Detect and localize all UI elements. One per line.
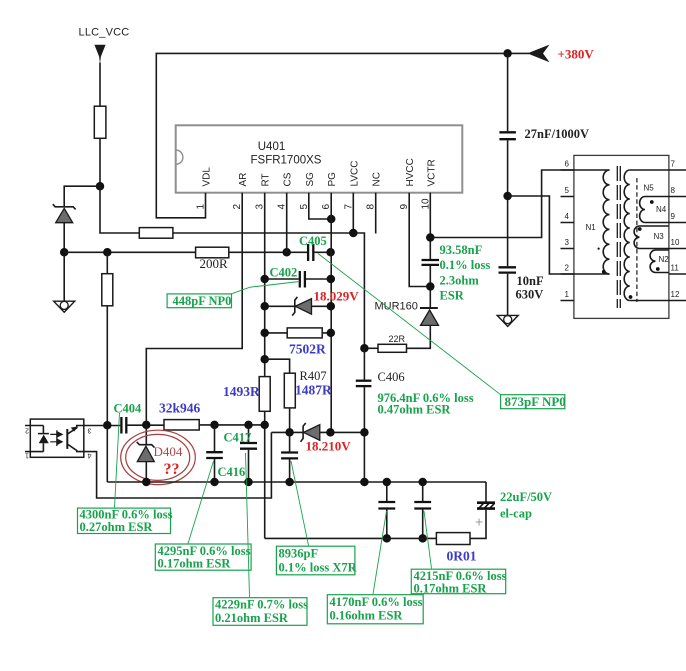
resistor 7502R row bbox=[260, 328, 335, 357]
wire pin 6 PG column bbox=[330, 193, 332, 433]
wire C406 column upper bbox=[363, 348, 365, 379]
wire 22R to C406 node bbox=[364, 347, 378, 349]
svg-text:VCTR: VCTR bbox=[426, 159, 437, 186]
capacitor C402 row bbox=[260, 266, 335, 288]
svg-text:200R: 200R bbox=[200, 256, 229, 271]
svg-text:10: 10 bbox=[671, 238, 680, 247]
capacitor C405 bbox=[299, 234, 327, 261]
wire VCTR node to transformer pin 6 bbox=[430, 170, 574, 238]
wire +380V down to 27nF bbox=[507, 53, 509, 131]
svg-text:4170nF 0.6% loss: 4170nF 0.6% loss bbox=[330, 595, 423, 609]
node junction LVCC bbox=[349, 229, 358, 238]
leader C417 to 4229nF box bbox=[246, 453, 250, 597]
node junction C417 top bbox=[244, 421, 253, 430]
winding N2 bbox=[650, 250, 669, 273]
svg-text:C404: C404 bbox=[114, 402, 143, 416]
wire 200R row left bbox=[64, 251, 195, 253]
ground (left) bbox=[54, 301, 75, 312]
transformer left pin stubs bbox=[561, 160, 575, 301]
resistor 200R bbox=[196, 247, 229, 271]
wire pin1 VDL loop to +380V rail bbox=[156, 53, 529, 217]
zener diode (LLC_VCC clamp) bbox=[53, 204, 76, 223]
svg-text:93.58nF: 93.58nF bbox=[440, 243, 483, 257]
winding separator dashed bbox=[636, 178, 638, 302]
svg-text:VDL: VDL bbox=[202, 167, 213, 187]
pin 5 SG label bbox=[299, 172, 316, 210]
svg-text:4229nF 0.7% loss: 4229nF 0.7% loss bbox=[215, 598, 308, 612]
diode D404 bbox=[137, 425, 155, 482]
wire ground bus bbox=[107, 481, 486, 483]
wire el-cap to ground bus bbox=[485, 482, 487, 502]
wire sense rail (rail3) bbox=[265, 537, 437, 539]
node junction divider top bbox=[103, 248, 112, 256]
svg-text:9: 9 bbox=[671, 212, 676, 221]
resistor 32k946 bbox=[159, 401, 201, 431]
capacitor (4215nF position) bbox=[414, 478, 431, 543]
annotation box 4300nF bbox=[78, 508, 173, 535]
node junction D404 bottom bbox=[142, 478, 151, 487]
svg-text:D404: D404 bbox=[154, 444, 183, 459]
annotation box 4229nF bbox=[213, 598, 308, 626]
node junction cap-4295 top bbox=[210, 421, 219, 430]
node junction LLC_VCC rail bbox=[96, 182, 105, 191]
svg-text:0.17ohm ESR: 0.17ohm ESR bbox=[414, 582, 488, 596]
pin 7 LVCC label bbox=[343, 161, 360, 210]
zener diode 18.210V row bbox=[271, 423, 368, 454]
node junction opto-C404 bbox=[103, 421, 112, 430]
svg-text:C417: C417 bbox=[224, 431, 252, 445]
svg-text:RT: RT bbox=[261, 173, 272, 186]
annotation box 4170nF bbox=[327, 595, 423, 624]
wire pin 10 VCTR column bbox=[429, 193, 431, 259]
wire zener to ground/junction bbox=[63, 223, 65, 302]
pin 1 VDL label bbox=[196, 167, 213, 210]
IC U401 FSFR1700XS body bbox=[176, 125, 463, 192]
opto-coupler bbox=[25, 419, 92, 458]
leader C404 to 4300nF box bbox=[115, 413, 120, 508]
wire 10nF to ground bbox=[507, 274, 509, 316]
svg-text:7: 7 bbox=[671, 160, 676, 169]
node junction VCTR to transformer bbox=[426, 233, 435, 242]
wire MUR160 to 22R bbox=[407, 325, 431, 348]
svg-text:6: 6 bbox=[565, 160, 570, 169]
wire 27nF to 10nF bbox=[507, 140, 509, 266]
capacitor 10nF/630V bbox=[499, 267, 544, 301]
node junction SG-PG bbox=[327, 215, 336, 224]
diode MUR160 bbox=[375, 301, 439, 326]
capacitor 22uF/50V el-cap bbox=[475, 490, 552, 530]
wire pin 9 HVCC to VCTR node bbox=[409, 193, 430, 287]
svg-text:1: 1 bbox=[25, 452, 29, 459]
svg-text:0.17ohm ESR: 0.17ohm ESR bbox=[158, 557, 232, 571]
wire pin 2 AR loop to D404 node bbox=[146, 193, 242, 425]
capacitor C417 bbox=[224, 425, 258, 482]
svg-text:AR: AR bbox=[238, 173, 249, 187]
svg-text:32k946: 32k946 bbox=[159, 401, 201, 416]
pin 9 HVCC label bbox=[399, 158, 416, 209]
svg-text:N5: N5 bbox=[644, 184, 655, 193]
pin 10 VCTR label bbox=[420, 159, 437, 209]
svg-text:27nF/1000V: 27nF/1000V bbox=[525, 127, 590, 141]
leader cap to 4170nF box bbox=[373, 511, 387, 594]
leader cap to 4215nF box bbox=[424, 511, 432, 569]
capacitor C406 bbox=[356, 370, 474, 417]
svg-text:873pF NP0: 873pF NP0 bbox=[505, 394, 566, 409]
wire LLC rail down to LVCC feed row bbox=[100, 186, 139, 233]
capacitor C416 bbox=[218, 432, 299, 482]
node junction HVCC-VCTR bbox=[426, 282, 435, 291]
svg-text:3: 3 bbox=[565, 238, 570, 247]
capacitor 93.58nF (HVCC) bbox=[422, 243, 491, 303]
transformer right pin stubs bbox=[669, 160, 686, 301]
resistor R407 1487R bbox=[284, 369, 332, 408]
wire pin 5 SG jumper to PG bbox=[309, 193, 331, 219]
svg-text:3: 3 bbox=[87, 427, 91, 434]
wire R407 to zener row bbox=[289, 408, 291, 433]
svg-text:22R: 22R bbox=[389, 334, 406, 344]
svg-text:LVCC: LVCC bbox=[349, 161, 360, 187]
transformer T1 body bbox=[574, 155, 669, 318]
svg-text:1493R: 1493R bbox=[223, 384, 260, 399]
svg-text:11: 11 bbox=[671, 264, 680, 273]
svg-text:2.3ohm: 2.3ohm bbox=[440, 274, 480, 288]
node junction C405-PG bbox=[326, 248, 335, 256]
node junction 22R-C406 bbox=[360, 344, 369, 353]
wire RT branch to R407 bbox=[265, 359, 290, 373]
svg-text:4: 4 bbox=[565, 212, 570, 221]
wire junction to zener branch bbox=[64, 186, 100, 206]
wire 1493R to 32k row and rail3 bbox=[264, 411, 266, 538]
resistor (divider lower) bbox=[102, 274, 113, 306]
annotation box 8936pF bbox=[276, 546, 357, 575]
svg-text:18.029V: 18.029V bbox=[314, 289, 360, 304]
svg-text:1487R: 1487R bbox=[295, 383, 332, 398]
capacitor (4170nF position) bbox=[378, 478, 395, 543]
leader C416 to 8936pF box bbox=[291, 461, 309, 546]
svg-text:448pF NP0: 448pF NP0 bbox=[173, 294, 232, 308]
svg-text:HVCC: HVCC bbox=[405, 158, 416, 186]
wire pin 3 RT column bbox=[264, 193, 266, 377]
capacitor (4295nF position) bbox=[206, 425, 223, 482]
svg-text:NC: NC bbox=[372, 172, 383, 186]
resistor 1493R bbox=[223, 377, 270, 412]
resistor (LLC_VCC series) bbox=[94, 106, 106, 138]
svg-text:4: 4 bbox=[87, 452, 91, 459]
zener diode 18.029V row bbox=[260, 289, 359, 316]
svg-text:2: 2 bbox=[25, 427, 29, 434]
svg-text:FSFR1700XS: FSFR1700XS bbox=[251, 155, 322, 167]
svg-text:0R01: 0R01 bbox=[447, 549, 477, 564]
ground (right) bbox=[497, 315, 518, 326]
svg-text:10nF: 10nF bbox=[517, 274, 544, 288]
annotation box 4295nF bbox=[155, 544, 251, 571]
annotation box 873pF NP0 bbox=[501, 394, 566, 409]
svg-text:630V: 630V bbox=[516, 288, 544, 302]
power port arrow LLC_VCC bbox=[94, 45, 105, 64]
svg-text:C405: C405 bbox=[299, 234, 327, 248]
wire resistor to junction bbox=[99, 138, 101, 186]
resistor (LVCC feed) bbox=[139, 228, 173, 239]
node junction RT branch bbox=[260, 355, 269, 364]
node junction bulk rail bbox=[503, 192, 512, 201]
svg-text:+: + bbox=[475, 514, 483, 530]
winding N1 primary bbox=[574, 170, 610, 274]
leader 448pF to C402 bbox=[231, 282, 300, 294]
pin 2 AR label bbox=[232, 173, 249, 210]
svg-text:PG: PG bbox=[327, 172, 338, 187]
svg-text:1: 1 bbox=[565, 290, 570, 299]
svg-text:el-cap: el-cap bbox=[500, 507, 532, 521]
svg-text:C402: C402 bbox=[270, 266, 298, 280]
svg-text:0.1% loss: 0.1% loss bbox=[440, 258, 491, 272]
svg-text:5: 5 bbox=[565, 186, 570, 195]
annotation circle D404 bbox=[121, 430, 196, 484]
svg-text:12: 12 bbox=[671, 290, 680, 299]
svg-text:N4: N4 bbox=[656, 205, 667, 214]
svg-text:0.16ohm ESR: 0.16ohm ESR bbox=[330, 609, 404, 623]
wire cap to MUR160 bbox=[429, 266, 431, 308]
wire pin 4 CS stub bbox=[286, 193, 288, 253]
wire LLC_VCC to resistor bbox=[99, 63, 101, 107]
winding N5 bbox=[624, 170, 669, 301]
wire 32k946 to 1493R column bbox=[199, 424, 265, 426]
svg-text:ESR: ESR bbox=[440, 289, 465, 303]
node junction C416 bottom bbox=[285, 478, 294, 487]
leader cap to 4295nF box bbox=[188, 461, 214, 544]
annotation box 4215nF bbox=[411, 569, 506, 596]
svg-text:0.21ohm ESR: 0.21ohm ESR bbox=[215, 611, 289, 625]
svg-text:U401: U401 bbox=[258, 141, 286, 153]
node junction C417 bottom bbox=[244, 478, 253, 487]
pin 4 CS label bbox=[277, 172, 294, 209]
wire 0R01 to el-cap bbox=[470, 510, 486, 539]
svg-text:0.1% loss X7R: 0.1% loss X7R bbox=[279, 561, 358, 575]
node junction cap-4295 bottom bbox=[210, 478, 219, 487]
leader C405 to 873pF bbox=[318, 254, 501, 395]
svg-text:N1: N1 bbox=[586, 223, 597, 232]
svg-text:??: ?? bbox=[164, 461, 180, 478]
wire rail2 riser (opto emitter return) bbox=[84, 432, 271, 498]
winding N4 bbox=[640, 197, 669, 223]
svg-text:+380V: +380V bbox=[558, 47, 595, 62]
pin 3 RT label bbox=[255, 173, 272, 209]
node junction +380V bbox=[503, 49, 512, 58]
transformer core bbox=[617, 166, 620, 308]
node junction 1493R bottom bbox=[260, 421, 269, 430]
svg-text:C406: C406 bbox=[378, 370, 405, 384]
svg-text:CS: CS bbox=[283, 172, 294, 186]
winding N3 bbox=[634, 226, 669, 249]
wire 200R to C405 row bbox=[229, 251, 307, 253]
annotation box 448pF NP0 bbox=[167, 294, 231, 308]
svg-text:2: 2 bbox=[565, 264, 570, 273]
svg-text:0.27ohm ESR: 0.27ohm ESR bbox=[80, 520, 154, 534]
svg-text:N3: N3 bbox=[654, 232, 665, 241]
wire divider column bbox=[106, 252, 108, 482]
svg-text:18.210V: 18.210V bbox=[306, 439, 352, 454]
svg-text:22uF/50V: 22uF/50V bbox=[500, 490, 552, 504]
power port +380V arrow bbox=[527, 45, 594, 63]
wire C404 to 32k946 bbox=[127, 424, 164, 426]
node junction CS bbox=[282, 248, 291, 256]
capacitor 27nF/1000V bbox=[499, 127, 589, 141]
resistor 0R01 bbox=[436, 533, 476, 564]
wire C406 column lower bbox=[363, 387, 365, 482]
wire C405 to PG bbox=[314, 251, 331, 253]
pin 8 NC label bbox=[366, 172, 383, 209]
wire LVCC feed row to LVCC pin and C406 column bbox=[173, 233, 365, 347]
svg-text:SG: SG bbox=[305, 172, 316, 187]
svg-text:LLC_VCC: LLC_VCC bbox=[79, 27, 130, 39]
svg-text:8: 8 bbox=[671, 186, 676, 195]
svg-text:7502R: 7502R bbox=[289, 342, 326, 357]
node junction C406 bottom bbox=[360, 478, 369, 487]
svg-text:N2: N2 bbox=[659, 255, 670, 264]
wire pin 7 LVCC stub bbox=[352, 193, 354, 233]
node junction D404 top bbox=[142, 421, 151, 430]
wire junction to transformer pin 2 bbox=[508, 196, 574, 274]
svg-text:8936pF: 8936pF bbox=[279, 547, 319, 561]
resistor 22R bbox=[378, 334, 407, 352]
wire pin 8 NC stub bbox=[375, 193, 377, 234]
node junction zener bottom bbox=[60, 248, 69, 256]
svg-text:0.47ohm ESR: 0.47ohm ESR bbox=[378, 403, 452, 417]
svg-text:R407: R407 bbox=[300, 369, 327, 383]
pin 6 PG label bbox=[321, 172, 338, 210]
wire opto pin3 to C404 bbox=[84, 425, 120, 427]
capacitor C404 bbox=[114, 402, 143, 434]
svg-text:C416: C416 bbox=[218, 465, 246, 479]
